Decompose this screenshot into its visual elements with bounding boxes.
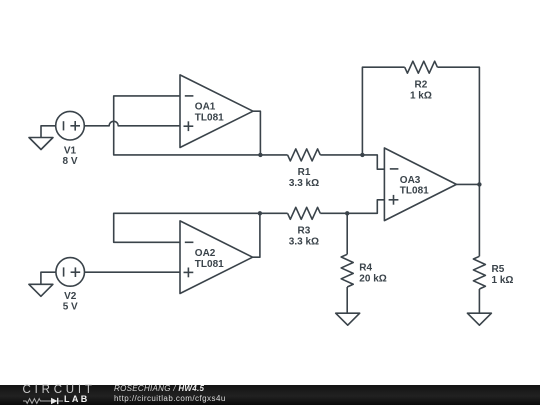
svg-text:TL081: TL081 bbox=[195, 112, 224, 123]
resistor R3 3.3k bbox=[260, 207, 347, 247]
wire OA2 feedback loop to inverting input bbox=[114, 213, 260, 242]
svg-text:V2: V2 bbox=[64, 291, 77, 302]
wire OA2 output up to feedback node bbox=[253, 213, 260, 257]
op-amp OA2 bbox=[180, 221, 253, 294]
ground at R4 bbox=[336, 313, 360, 325]
svg-text:R2: R2 bbox=[415, 80, 428, 91]
voltage source V2 bbox=[56, 258, 85, 313]
wire junction to OA3 noninverting input bbox=[347, 200, 384, 214]
ground at R5 bbox=[467, 313, 491, 325]
svg-text:TL081: TL081 bbox=[195, 259, 224, 270]
svg-text:R4: R4 bbox=[359, 262, 372, 273]
node R3/R4 junction bbox=[345, 211, 349, 215]
CircuitLab logo mini schematic (resistor + diode) bbox=[23, 397, 67, 405]
svg-text:TL081: TL081 bbox=[400, 186, 429, 197]
voltage source V1 bbox=[56, 111, 85, 167]
wire V1 minus to ground bbox=[41, 126, 56, 138]
svg-text:R3: R3 bbox=[298, 225, 311, 236]
svg-text:OA3: OA3 bbox=[400, 175, 421, 186]
svg-text:V1: V1 bbox=[64, 145, 77, 156]
footer title text bbox=[114, 384, 204, 393]
svg-text:R5: R5 bbox=[492, 264, 505, 275]
svg-text:3.3 kΩ: 3.3 kΩ bbox=[289, 236, 319, 247]
svg-text:1 kΩ: 1 kΩ bbox=[410, 91, 432, 102]
node OA2 output junction bbox=[258, 211, 262, 215]
resistor R2 1k bbox=[405, 61, 438, 102]
wire OA3 output bbox=[456, 183, 479, 185]
wire V2 minus to ground bbox=[41, 272, 56, 284]
CircuitLab logo wordmark CIRCUIT bbox=[23, 384, 96, 396]
ground at V2 bbox=[29, 284, 53, 296]
wire OA1 output down to feedback node bbox=[253, 111, 260, 155]
node R1/R2 junction bbox=[360, 153, 364, 157]
svg-text:OA1: OA1 bbox=[195, 102, 216, 113]
svg-text:20 kΩ: 20 kΩ bbox=[359, 274, 386, 285]
svg-text:OA2: OA2 bbox=[195, 248, 216, 259]
resistor R1 3.3k bbox=[260, 149, 362, 189]
wire junction up to R2 bbox=[362, 67, 404, 155]
svg-text:5 V: 5 V bbox=[63, 302, 78, 313]
wire V1 plus to OA1 noninverting input (hop over feedback) bbox=[84, 121, 180, 126]
node OA1 output junction bbox=[258, 153, 262, 157]
svg-text:R1: R1 bbox=[298, 167, 311, 178]
op-amp OA3 bbox=[384, 148, 456, 221]
wire V2 plus to OA2 noninverting input bbox=[85, 271, 181, 273]
footer url text bbox=[114, 394, 226, 403]
ground at V1 bbox=[29, 138, 53, 150]
op-amp OA1 bbox=[180, 75, 253, 148]
wire junction to OA3 inverting input bbox=[362, 155, 384, 169]
CircuitLab logo wordmark LAB bbox=[64, 394, 90, 404]
node OA3 output junction bbox=[477, 182, 481, 186]
resistor R5 1k bbox=[473, 184, 513, 313]
footer bar bbox=[0, 385, 540, 405]
resistor R4 20k bbox=[341, 213, 387, 313]
svg-text:3.3 kΩ: 3.3 kΩ bbox=[289, 178, 319, 189]
wire OA1 feedback loop to inverting input bbox=[114, 96, 261, 155]
svg-text:1 kΩ: 1 kΩ bbox=[492, 275, 514, 286]
wire R2 to output node bbox=[437, 67, 479, 184]
svg-text:8 V: 8 V bbox=[62, 156, 77, 167]
